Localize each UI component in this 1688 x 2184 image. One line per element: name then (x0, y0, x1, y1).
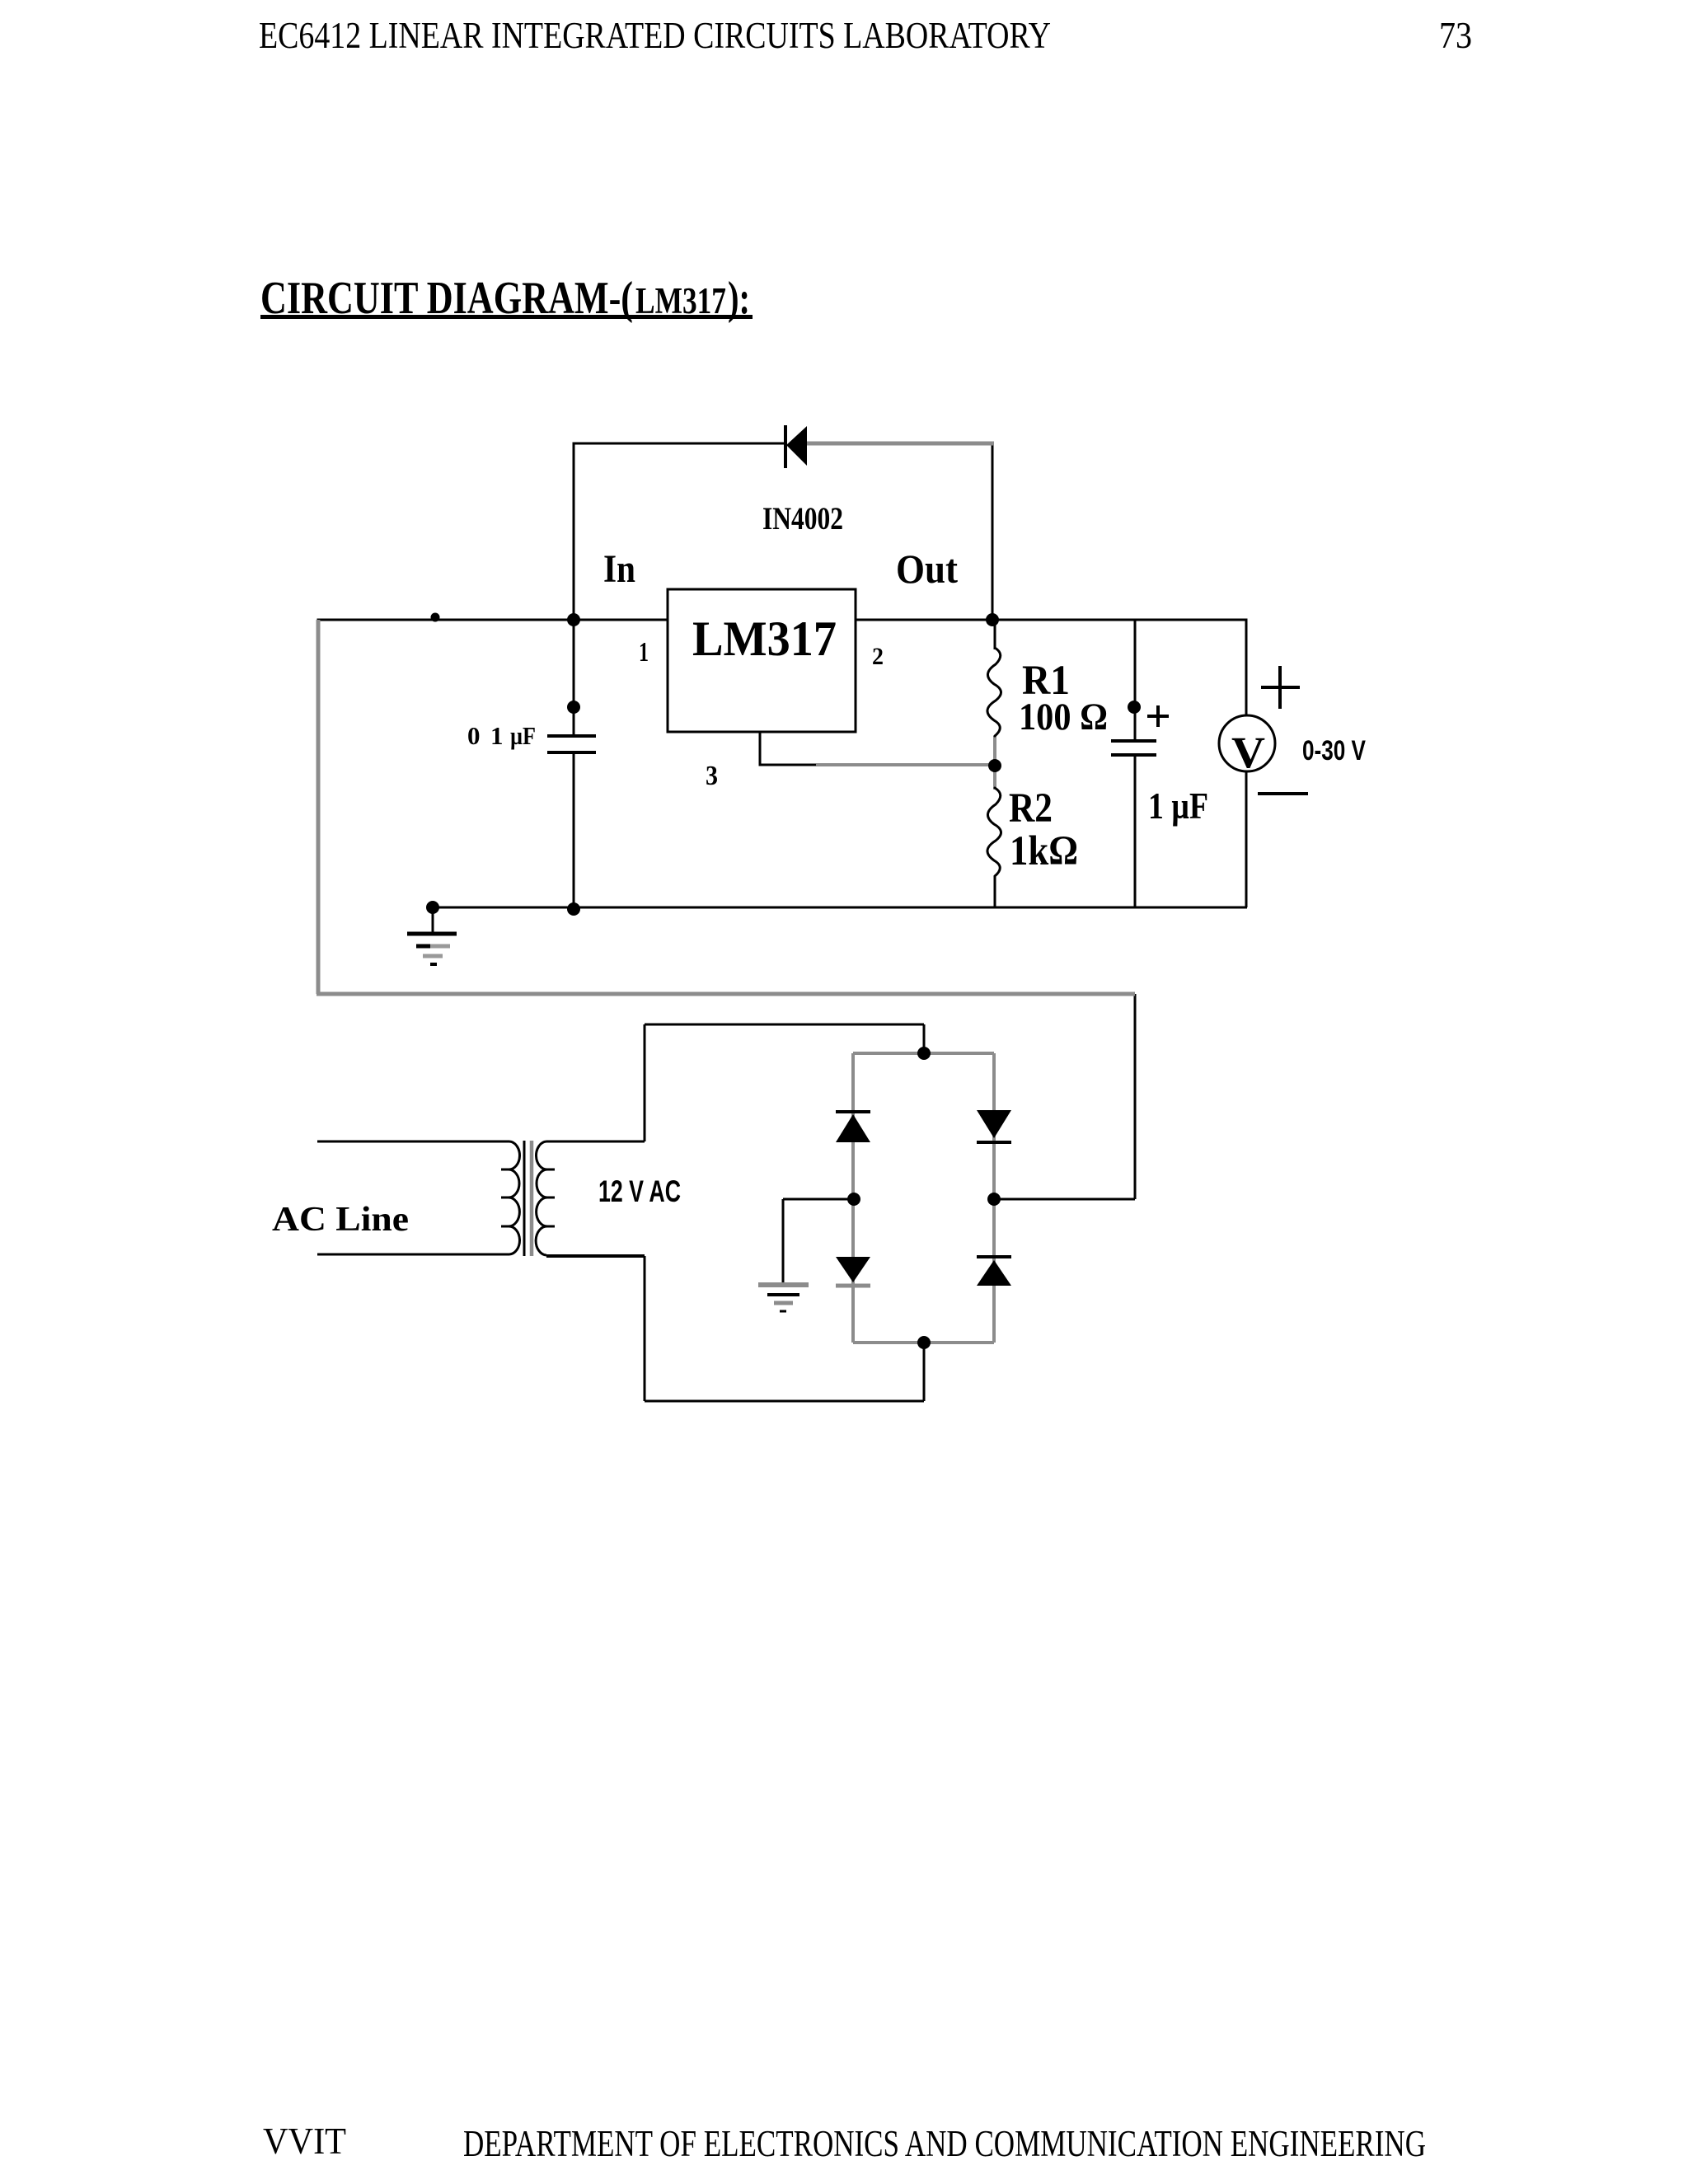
svg-text:In: In (603, 547, 635, 591)
svg-text:73: 73 (1439, 15, 1472, 56)
svg-text:V: V (1231, 728, 1265, 777)
svg-text:1kΩ: 1kΩ (1010, 828, 1078, 874)
svg-text:3: 3 (706, 761, 718, 791)
svg-text:AC Line: AC Line (272, 1201, 409, 1239)
svg-text:DEPARTMENT OF ELECTRONICS AND: DEPARTMENT OF ELECTRONICS AND COMMUNICAT… (463, 2123, 1426, 2164)
svg-text:R2: R2 (1009, 785, 1053, 832)
svg-text:0-30 V: 0-30 V (1302, 735, 1366, 766)
svg-text:1: 1 (639, 637, 649, 668)
svg-text:Out: Out (896, 546, 958, 592)
svg-text:1: 1 (490, 721, 504, 750)
svg-text:2: 2 (872, 643, 884, 670)
svg-text:µF: µF (510, 721, 536, 750)
svg-text:LM317: LM317 (692, 612, 837, 666)
svg-text:100 Ω: 100 Ω (1019, 696, 1108, 738)
svg-text:0: 0 (467, 721, 481, 750)
svg-text:1 µF: 1 µF (1148, 785, 1208, 827)
svg-text:IN4002: IN4002 (762, 501, 843, 537)
svg-text:EC6412 LINEAR INTEGRATED CIRCU: EC6412 LINEAR INTEGRATED CIRCUITS LABORA… (259, 15, 1051, 56)
svg-text:12 V AC: 12 V AC (598, 1174, 681, 1208)
svg-text:VVIT: VVIT (263, 2120, 346, 2162)
